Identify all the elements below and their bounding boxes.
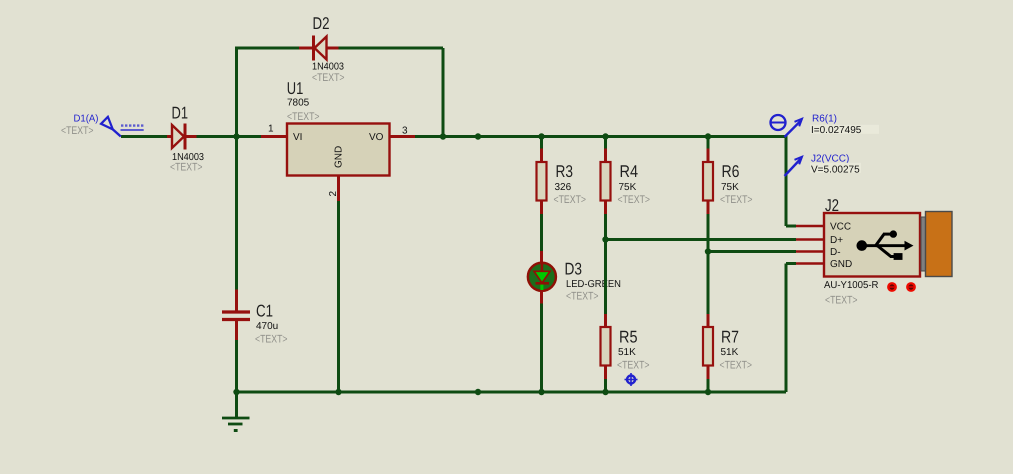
wire: bottom ground rail <box>237 391 787 394</box>
pin VCC stub <box>796 225 824 228</box>
wire: R4 bottom to D+ node <box>604 214 607 240</box>
svg-text:326: 326 <box>555 182 572 193</box>
svg-text:470u: 470u <box>256 321 278 332</box>
current probe R6(1) <box>771 114 880 138</box>
svg-text:D2: D2 <box>313 14 330 33</box>
junction: rail to R6 <box>705 133 711 139</box>
svg-text:<TEXT>: <TEXT> <box>255 334 288 346</box>
svg-text:<TEXT>: <TEXT> <box>61 125 94 137</box>
svg-text:<TEXT>: <TEXT> <box>170 162 203 174</box>
junction: rail to R3 <box>538 133 544 139</box>
wire: input terminal to D1 anode <box>121 135 167 138</box>
voltage probe J2(VCC) <box>785 154 862 177</box>
solder pad 2 <box>906 282 916 292</box>
pin D- stub <box>796 250 824 253</box>
wire: branch up-left to D2 loop (vertical) <box>235 48 238 137</box>
junction: R7 to bottom rail <box>705 389 711 395</box>
svg-text:<TEXT>: <TEXT> <box>312 72 345 84</box>
svg-text:R7: R7 <box>721 328 739 347</box>
svg-text:2: 2 <box>328 191 339 197</box>
wire: R5 to bottom rail <box>604 379 607 392</box>
svg-text:<TEXT>: <TEXT> <box>617 360 650 372</box>
svg-text:D3: D3 <box>565 260 583 279</box>
svg-text:D1(A): D1(A) <box>74 114 99 125</box>
wire: D- net to J2 <box>708 250 796 253</box>
svg-text:VI: VI <box>293 132 302 143</box>
svg-text:LED-GREEN: LED-GREEN <box>566 279 621 290</box>
wire: C1 top lead up to input node <box>235 137 238 290</box>
wire: D1 cathode to U1 VI <box>197 135 262 138</box>
ground symbol <box>222 418 250 431</box>
pin D+ stub <box>796 238 824 241</box>
svg-text:C1: C1 <box>256 302 273 321</box>
pin GND stub <box>796 262 824 265</box>
svg-text:VO: VO <box>369 132 384 143</box>
svg-text:U1: U1 <box>287 79 304 98</box>
wire: R3 to D3 anode <box>540 214 543 251</box>
svg-text:<TEXT>: <TEXT> <box>566 291 599 303</box>
wire: top rail right segment from D2 anode <box>339 47 444 50</box>
resistor R6 75K <box>703 137 753 215</box>
svg-text:<TEXT>: <TEXT> <box>720 194 753 206</box>
svg-text:D-: D- <box>830 247 841 258</box>
origin marker (blue target) <box>625 373 638 386</box>
resistor R3 326 <box>537 137 587 215</box>
connector body <box>824 213 920 277</box>
wire: D+ net to J2 <box>606 238 797 241</box>
svg-text:R6: R6 <box>722 162 740 181</box>
wire: J2 GND left stub <box>786 262 796 265</box>
svg-text:<TEXT>: <TEXT> <box>554 194 587 206</box>
wire: C1 bottom lead down to ground rail <box>235 340 238 392</box>
orange plug block <box>926 212 953 277</box>
svg-text:R6(1): R6(1) <box>812 114 837 125</box>
svg-text:I=0.027495: I=0.027495 <box>811 125 862 136</box>
junction: lone dot on output rail <box>475 133 481 139</box>
svg-text:<TEXT>: <TEXT> <box>618 194 651 206</box>
wire: output rail U1 VO to right corner <box>415 135 786 138</box>
svg-text:GND: GND <box>334 146 345 168</box>
terminal D1(A) input flag <box>61 114 144 138</box>
svg-text:V=5.00275: V=5.00275 <box>811 165 860 176</box>
svg-text:7805: 7805 <box>287 98 310 109</box>
svg-text:51K: 51K <box>618 347 636 358</box>
junction: D- tap <box>705 248 711 254</box>
wire: stub to ground symbol <box>235 392 238 417</box>
wire: D- node down to R7 <box>707 252 710 315</box>
svg-text:AU-Y1005-R: AU-Y1005-R <box>824 280 879 291</box>
svg-text:1N4003: 1N4003 <box>312 62 344 73</box>
regulator U1 7805 <box>287 79 390 176</box>
wire: GND vertical down to bottom rail <box>785 264 788 393</box>
svg-text:D1: D1 <box>172 104 189 123</box>
wire: D3 cathode to bottom rail <box>540 304 543 393</box>
wire: vertical from top rail down to output rail <box>442 48 445 137</box>
solder pad 1 <box>887 282 897 292</box>
capacitor C1 470u <box>222 290 288 346</box>
junction: R5 to bottom rail <box>602 389 608 395</box>
svg-text:D+: D+ <box>830 235 843 246</box>
svg-text:R4: R4 <box>620 162 639 181</box>
junction: rail to R4 <box>602 133 608 139</box>
USB connector J2 AU-Y1005-R <box>796 196 952 307</box>
metal shield bar <box>921 217 926 271</box>
USB trident icon <box>857 230 914 259</box>
junction: ground rail left end <box>233 389 239 395</box>
svg-text:R3: R3 <box>556 162 574 181</box>
resistor R4 75K <box>601 137 651 215</box>
svg-text:R5: R5 <box>619 328 638 347</box>
wire: U1 GND pin down to ground rail <box>337 201 340 392</box>
junction: D1/U1 wire with C1 branch <box>233 133 239 139</box>
svg-text:75K: 75K <box>619 182 637 193</box>
svg-text:51K: 51K <box>721 347 739 358</box>
pin 1 stub of U1 <box>261 135 287 138</box>
svg-text:75K: 75K <box>721 182 739 193</box>
wire: R7 to bottom rail <box>707 379 710 392</box>
svg-text:<TEXT>: <TEXT> <box>720 360 753 372</box>
wire: D+ node down to R5 <box>604 240 607 315</box>
pin 2 stub of U1 <box>337 176 340 202</box>
wire: VCC horizontal into J2 <box>786 225 796 228</box>
svg-text:<TEXT>: <TEXT> <box>287 111 320 123</box>
svg-text:VCC: VCC <box>830 222 851 233</box>
svg-text:J2: J2 <box>825 196 839 215</box>
resistor R7 51K <box>703 314 752 379</box>
wire: output rail corner down to J2 VCC <box>785 135 788 226</box>
wire: top rail left segment to D2 cathode <box>235 47 299 50</box>
resistor R5 51K <box>601 314 650 379</box>
junction: lone dot on bottom rail <box>475 389 481 395</box>
junction: D2 bypass joins output rail <box>440 133 446 139</box>
diode D2 (1N4003) <box>299 14 345 84</box>
junction: D+ tap <box>602 236 608 242</box>
LED D3 LED-GREEN <box>528 251 621 304</box>
svg-text:3: 3 <box>402 126 408 137</box>
pin 3 stub of U1 <box>390 135 416 138</box>
svg-text:1: 1 <box>268 124 274 135</box>
svg-text:<TEXT>: <TEXT> <box>825 295 858 307</box>
junction: U1 GND to bottom rail <box>335 389 341 395</box>
svg-text:GND: GND <box>830 259 852 270</box>
wire: R6 bottom to D- node <box>707 214 710 252</box>
diode D1 (1N4003) <box>167 104 204 174</box>
junction: D3 column to bottom rail <box>538 389 544 395</box>
